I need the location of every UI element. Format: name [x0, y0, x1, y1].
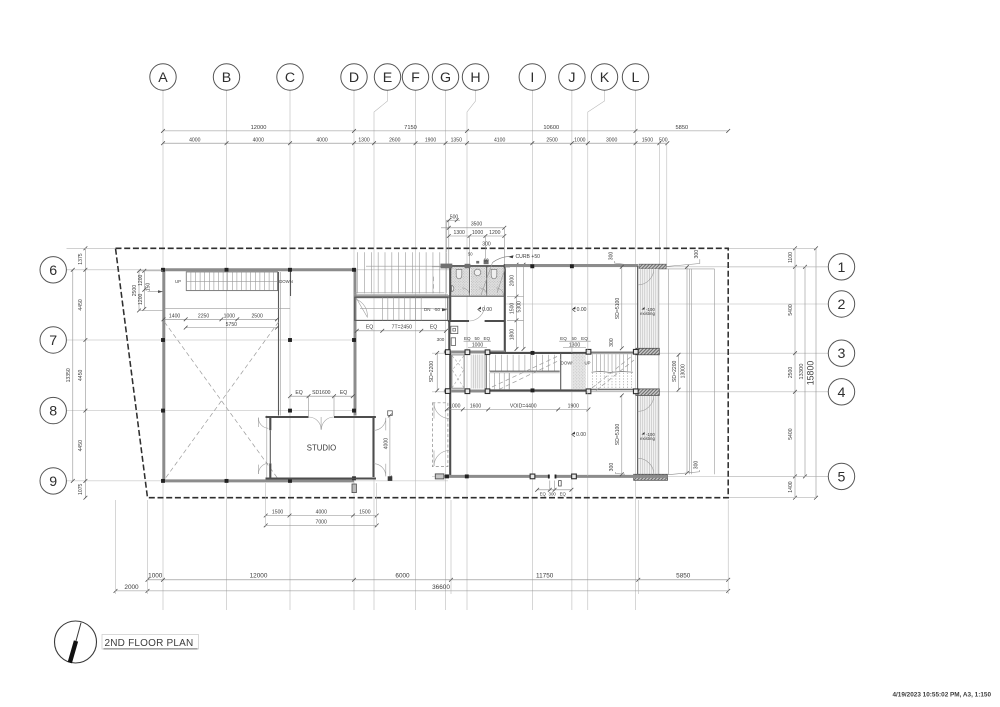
svg-text:1600: 1600	[470, 403, 481, 409]
left room bottom wall	[163, 479, 354, 482]
EQ 50 EQ / 1000 dim	[464, 336, 491, 349]
svg-text:VOID=4400: VOID=4400	[510, 403, 537, 409]
studio bottom dims 1500/4000/1500	[264, 483, 379, 527]
svg-text:300: 300	[549, 491, 557, 496]
svg-text:12000: 12000	[250, 573, 268, 580]
folding partition dashed	[432, 403, 448, 467]
toilet bottom wall	[449, 295, 505, 297]
svg-text:1500: 1500	[272, 509, 283, 515]
4000 dim right of studio	[383, 411, 392, 481]
SD=5100 dims	[615, 265, 623, 476]
svg-text:0.00: 0.00	[577, 307, 587, 313]
studio top wall	[266, 416, 309, 418]
column D9	[352, 476, 356, 480]
corridor door arc	[469, 305, 485, 321]
svg-text:12000: 12000	[251, 125, 267, 131]
svg-text:EQ: EQ	[560, 491, 567, 496]
svg-text:A: A	[158, 70, 168, 86]
svg-text:SD=5100: SD=5100	[615, 298, 621, 320]
svg-text:4000: 4000	[253, 138, 264, 144]
corridor rail	[360, 308, 448, 310]
svg-text:500: 500	[659, 138, 668, 144]
svg-text:36600: 36600	[432, 584, 450, 591]
svg-text:4450: 4450	[78, 369, 84, 380]
svg-text:EQ: EQ	[560, 336, 567, 341]
svg-text:UP: UP	[175, 279, 181, 284]
svg-text:2500: 2500	[788, 367, 794, 378]
svg-text:4000: 4000	[316, 509, 327, 515]
svg-text:SD=5100: SD=5100	[615, 424, 621, 446]
wall below north stair	[354, 295, 450, 298]
svg-text:1500: 1500	[642, 138, 653, 144]
small room fixtures	[451, 326, 458, 333]
interior dim row 1400/2250/1000/2500	[162, 313, 279, 329]
EQ 50 EQ / 1300 dim right	[559, 336, 591, 349]
svg-text:EQ: EQ	[340, 390, 347, 396]
svg-text:1350: 1350	[451, 138, 462, 144]
title 2ND FLOOR PLAN	[102, 635, 199, 650]
svg-text:4000: 4000	[383, 438, 389, 449]
svg-text:10600: 10600	[543, 125, 559, 131]
svg-text:50: 50	[468, 251, 473, 256]
corridor south wall	[448, 320, 469, 322]
svg-text:1900: 1900	[425, 138, 436, 144]
columns top wall	[530, 264, 534, 268]
svg-text:4100: 4100	[494, 138, 505, 144]
svg-text:2500: 2500	[132, 285, 138, 296]
svg-text:300: 300	[694, 461, 700, 470]
svg-text:SD1600: SD1600	[312, 390, 331, 396]
svg-text:EQ: EQ	[430, 325, 437, 331]
svg-text:5400: 5400	[788, 428, 794, 439]
north arrow	[55, 621, 97, 663]
svg-text:UP: UP	[585, 360, 591, 365]
door dim EQ 300 EQ	[535, 481, 573, 497]
top dimension row 2	[161, 138, 669, 146]
columns left room	[161, 268, 165, 272]
main bottom wall	[440, 475, 667, 478]
upper stair (UP/DOWN) in left room	[186, 272, 277, 291]
level 0.00 south hall	[572, 432, 575, 435]
walkway left edge	[637, 266, 639, 476]
grid line verticals A-L	[163, 90, 636, 610]
svg-text:13300: 13300	[799, 364, 805, 380]
shaft side hatch	[471, 355, 486, 389]
thin lines below top wall right part	[666, 268, 714, 270]
walkway bottom cap	[634, 474, 668, 480]
studio bottom wall	[266, 477, 377, 479]
svg-text:150: 150	[146, 283, 152, 292]
walkway door arcs	[638, 269, 654, 285]
existing stair treads lower dotted	[593, 373, 632, 389]
svg-text:H: H	[470, 70, 480, 86]
stair rail line	[366, 265, 448, 267]
small dims left of A wall	[132, 269, 163, 313]
J wall stub	[571, 268, 573, 353]
svg-text:-50: -50	[434, 307, 441, 312]
stair top gray band	[444, 351, 505, 354]
svg-text:1075: 1075	[78, 483, 84, 494]
svg-text:1000: 1000	[472, 230, 483, 236]
svg-text:6: 6	[49, 263, 57, 279]
hall west wall	[449, 353, 451, 477]
existing stair X dashes	[592, 356, 633, 389]
svg-text:D: D	[349, 70, 359, 86]
stair block columns	[531, 351, 535, 355]
SD=2200 west dim	[429, 351, 439, 392]
svg-text:4: 4	[838, 385, 846, 401]
left room west wall	[162, 270, 165, 481]
level -100 existing upper	[642, 307, 645, 310]
toilet stall floors	[451, 267, 468, 296]
svg-text:2600: 2600	[389, 138, 400, 144]
stall door arcs	[462, 288, 470, 296]
svg-text:L: L	[632, 70, 640, 86]
stair block frame	[486, 353, 591, 391]
stair right wall seg C	[290, 271, 292, 296]
studio door arcs	[309, 417, 322, 430]
svg-text:DOWN: DOWN	[561, 360, 575, 365]
grid bubbles right 1-5	[828, 254, 854, 280]
K grid inner	[587, 268, 589, 352]
toilet walls vertical	[449, 264, 451, 321]
svg-text:5850: 5850	[676, 125, 689, 131]
WC fixtures	[456, 269, 462, 278]
svg-text:7150: 7150	[404, 125, 417, 131]
existing stair corner columns	[586, 349, 591, 354]
stair break dashes	[492, 357, 557, 388]
svg-text:1200: 1200	[138, 274, 144, 285]
bottom wall end cap	[435, 474, 444, 479]
east facade lines	[668, 269, 670, 474]
dashed door line	[433, 277, 435, 293]
svg-text:5400: 5400	[788, 304, 794, 315]
svg-text:6000: 6000	[395, 573, 410, 580]
svg-text:5750: 5750	[226, 322, 237, 328]
EQ SD1600 EQ dim	[288, 390, 355, 416]
svg-text:0.00: 0.00	[576, 432, 586, 438]
svg-text:8: 8	[49, 404, 57, 420]
corridor flight treads	[382, 297, 421, 320]
svg-text:4000: 4000	[316, 138, 327, 144]
svg-text:2000: 2000	[124, 584, 139, 591]
svg-text:1300: 1300	[454, 230, 465, 236]
wall caps dark	[441, 264, 453, 269]
void dimension row	[445, 403, 590, 411]
svg-text:SD=2200: SD=2200	[672, 360, 678, 382]
svg-text:50: 50	[571, 336, 577, 341]
bottom dimension row 2	[114, 584, 731, 593]
svg-text:EQ: EQ	[295, 390, 302, 396]
bottom wall columns	[445, 474, 449, 478]
svg-text:15800: 15800	[806, 361, 816, 386]
svg-text:C: C	[285, 70, 295, 86]
svg-text:I: I	[530, 70, 534, 86]
break line wavy	[591, 371, 633, 372]
svg-text:EQ: EQ	[581, 336, 588, 341]
property boundary dashed	[116, 248, 729, 497]
svg-text:1500: 1500	[510, 303, 516, 314]
svg-text:K: K	[600, 70, 610, 86]
walkway wall cap 1	[636, 348, 659, 355]
svg-text:B: B	[222, 70, 231, 86]
right dimension lines	[728, 246, 828, 499]
svg-text:DN: DN	[424, 307, 431, 312]
svg-text:300: 300	[482, 241, 491, 247]
walkway right edge	[658, 269, 660, 474]
walkway hatch top segment	[638, 269, 658, 348]
CURB +50	[493, 254, 541, 262]
svg-text:2250: 2250	[198, 313, 209, 319]
svg-text:2: 2	[838, 297, 846, 313]
svg-text:9: 9	[49, 474, 57, 490]
svg-text:2000: 2000	[510, 275, 516, 286]
svg-text:DOWN: DOWN	[279, 279, 293, 284]
svg-text:3: 3	[838, 346, 846, 362]
existing stair walls	[591, 351, 633, 353]
stair lower flight treads	[490, 373, 510, 389]
svg-text:300: 300	[609, 338, 615, 347]
svg-text:1900: 1900	[568, 403, 579, 409]
elevator shaft with X	[452, 355, 464, 388]
studio west wall	[266, 416, 268, 480]
svg-text:50: 50	[484, 257, 489, 262]
toilet top wall	[441, 265, 510, 267]
studio east door arcs	[374, 418, 386, 431]
grid D wall	[354, 270, 357, 416]
svg-text:existing: existing	[640, 311, 655, 316]
grid line horizontals rows 1-9	[67, 267, 829, 481]
dims above toilets	[441, 222, 506, 264]
bottom dimension row 1	[146, 573, 731, 582]
level 0.00 corridor	[478, 307, 481, 310]
north exterior stair treads	[358, 252, 447, 293]
walkway hatch mid segment	[638, 395, 658, 474]
EQ 7T=2450 EQ dims	[355, 325, 448, 333]
svg-text:300: 300	[609, 252, 615, 261]
svg-text:2500: 2500	[546, 138, 557, 144]
svg-text:G: G	[440, 70, 451, 86]
svg-text:300: 300	[694, 250, 700, 259]
svg-text:1300: 1300	[358, 138, 369, 144]
svg-text:1000: 1000	[449, 403, 460, 409]
svg-text:1800: 1800	[510, 329, 516, 340]
svg-text:1000: 1000	[224, 313, 235, 319]
void X dashed	[165, 322, 279, 480]
left room top wall	[163, 268, 356, 271]
svg-text:1: 1	[838, 260, 846, 276]
void guard rail x278	[278, 272, 280, 416]
bottom wall door gap	[550, 474, 555, 479]
svg-text:1400: 1400	[169, 313, 180, 319]
studio west door arcs	[258, 418, 268, 429]
level -100 existing lower	[642, 432, 645, 435]
svg-text:7T=2450: 7T=2450	[392, 325, 412, 331]
row2 right extension stubs	[659, 143, 667, 264]
svg-text:4450: 4450	[78, 440, 84, 451]
svg-text:4000: 4000	[189, 138, 200, 144]
dim chain 2000/1500/1800	[507, 263, 525, 351]
svg-text:7000: 7000	[316, 519, 327, 525]
top dimension row 1	[161, 125, 730, 133]
svg-text:2ND FLOOR PLAN: 2ND FLOOR PLAN	[105, 638, 194, 649]
svg-text:3500: 3500	[471, 222, 482, 228]
svg-text:0.00: 0.00	[482, 307, 492, 313]
stair mid rails	[490, 370, 560, 372]
void line y308	[165, 307, 291, 309]
svg-text:STUDIO: STUDIO	[307, 444, 336, 453]
svg-text:5: 5	[838, 469, 846, 485]
svg-text:300: 300	[609, 463, 615, 472]
svg-text:1000: 1000	[148, 573, 163, 580]
door jamb marks	[548, 475, 550, 479]
svg-text:CURB +50: CURB +50	[516, 254, 541, 260]
svg-text:1500: 1500	[359, 509, 370, 515]
right block top wall	[505, 264, 638, 267]
svg-text:1200: 1200	[489, 230, 500, 236]
svg-text:7: 7	[49, 333, 57, 349]
svg-text:EQ: EQ	[483, 336, 490, 341]
toilet leader dashes	[481, 263, 493, 296]
svg-text:F: F	[411, 70, 420, 86]
500 dim at top	[447, 215, 461, 264]
svg-text:5300: 5300	[517, 301, 523, 312]
corridor door arc	[357, 300, 368, 318]
top wall hatched cap	[639, 264, 666, 269]
studio east wall	[372, 417, 374, 477]
grid bubbles top A-L	[150, 64, 176, 90]
svg-text:3000: 3000	[606, 138, 617, 144]
svg-text:1375: 1375	[78, 253, 84, 264]
stair bottom lines	[354, 292, 444, 294]
svg-text:EQ: EQ	[366, 325, 373, 331]
svg-text:1200: 1200	[138, 293, 144, 304]
svg-text:1000: 1000	[574, 138, 585, 144]
svg-text:2500: 2500	[251, 313, 262, 319]
svg-text:13350: 13350	[66, 368, 72, 382]
svg-text:11750: 11750	[536, 573, 554, 580]
svg-text:5850: 5850	[676, 573, 691, 580]
svg-text:4/19/2023 10:55:02 PM, A3, 1:1: 4/19/2023 10:55:02 PM, A3, 1:150	[892, 692, 991, 699]
svg-text:13000: 13000	[680, 364, 686, 378]
grid bubbles left 6-9	[40, 257, 66, 283]
corridor stair flight frame	[355, 297, 448, 320]
bottom extension stubs	[116, 500, 729, 594]
svg-text:existing: existing	[640, 436, 655, 441]
hall west door arcs	[434, 403, 450, 419]
stair upper flight treads	[490, 355, 555, 371]
svg-text:EQ: EQ	[540, 491, 547, 496]
svg-text:SD=2200: SD=2200	[429, 361, 435, 383]
svg-text:1100: 1100	[788, 252, 794, 263]
svg-text:E: E	[383, 70, 392, 86]
UP flight stipple	[573, 354, 586, 390]
left dimension line	[66, 246, 116, 499]
stair landing inner line	[509, 373, 511, 389]
level 0.00 right room	[572, 307, 575, 310]
svg-text:J: J	[568, 70, 575, 86]
svg-text:1400: 1400	[788, 481, 794, 492]
SD=2200 13000 dims	[672, 265, 689, 475]
svg-text:50: 50	[474, 336, 480, 341]
walkway wall cap 2	[636, 389, 659, 396]
small room west wall	[448, 321, 450, 353]
svg-text:EQ: EQ	[464, 336, 471, 341]
svg-text:4450: 4450	[78, 299, 84, 310]
svg-text:300: 300	[437, 337, 445, 342]
existing stair treads upper	[593, 354, 632, 371]
